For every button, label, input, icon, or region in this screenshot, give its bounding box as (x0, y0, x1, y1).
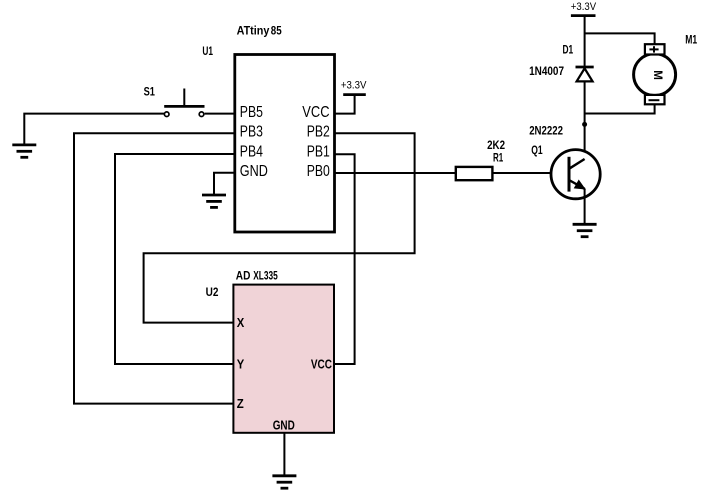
svg-text:GND: GND (240, 163, 268, 180)
wire VCC pin of U1 to +3.3V (335, 96, 355, 114)
wire emitter to ground (584, 188, 586, 223)
svg-text:+3.3V: +3.3V (571, 1, 597, 13)
svg-text:U2: U2 (206, 285, 219, 299)
svg-text:PB4: PB4 (240, 143, 263, 160)
wire PB2 to X (144, 133, 415, 322)
svg-text:R1: R1 (493, 151, 503, 165)
motor M1 (634, 44, 676, 104)
ground (U2 GND) (272, 476, 296, 488)
svg-text:S1: S1 (144, 84, 156, 98)
svg-text:PB1: PB1 (307, 143, 330, 160)
svg-text:U1: U1 (202, 44, 213, 58)
wire switch to PB5 (205, 113, 235, 115)
ground (U1 GND) (202, 195, 226, 207)
IC U1 ATtiny85 body (235, 55, 335, 233)
svg-text:Q1: Q1 (531, 143, 543, 157)
svg-text:+3.3V: +3.3V (341, 79, 367, 91)
svg-text:PB0: PB0 (307, 163, 330, 180)
transistor Q1 (551, 150, 600, 199)
svg-text:85: 85 (271, 24, 282, 38)
wire PB3 to Z (74, 133, 235, 403)
wire U2 GND to ground (283, 433, 285, 475)
svg-text:VCC: VCC (311, 357, 332, 372)
svg-text:Y: Y (237, 357, 245, 372)
svg-text:GND: GND (273, 417, 295, 432)
resistor R1 (456, 167, 493, 180)
wire PB0 to base of Q1 (335, 172, 569, 174)
svg-text:M1: M1 (685, 33, 697, 47)
switch S1 (164, 89, 204, 117)
svg-text:PB2: PB2 (307, 124, 330, 141)
wire PB4 to Y (115, 154, 235, 364)
svg-text:VCC: VCC (302, 104, 329, 121)
ground (left of S1) (12, 145, 36, 157)
wire GND pin of U1 (214, 173, 235, 195)
svg-text:XL335: XL335 (253, 269, 278, 283)
ground (Q1 emitter) (573, 224, 597, 236)
svg-text:1N4007: 1N4007 (529, 64, 564, 78)
svg-text:PB3: PB3 (240, 124, 263, 141)
wire PB5 net: switch to ground (24, 114, 164, 145)
node junction dot (582, 122, 587, 127)
wire PB1 to ADXL VCC (334, 154, 355, 364)
power +3.3V (right) (571, 14, 596, 17)
wire motor minus to collector node (585, 104, 655, 113)
diode D1 (576, 67, 594, 81)
svg-text:M: M (651, 70, 663, 80)
wire D1 anode to collector (584, 81, 586, 159)
svg-text:X: X (237, 315, 245, 330)
wire branch to motor plus (585, 33, 655, 44)
power +3.3V (U1) (343, 93, 366, 96)
svg-text:ATtiny: ATtiny (237, 24, 270, 38)
wire +3.3V to diode D1 (584, 16, 586, 66)
svg-text:PB5: PB5 (240, 104, 263, 121)
IC U2 ADXL335 body (233, 285, 334, 433)
svg-text:2N2222: 2N2222 (529, 124, 563, 138)
svg-text:AD: AD (236, 269, 251, 283)
svg-text:D1: D1 (563, 43, 574, 57)
svg-text:Z: Z (237, 396, 244, 411)
